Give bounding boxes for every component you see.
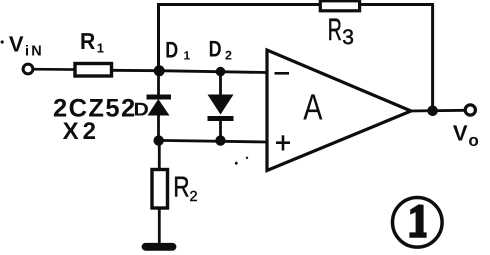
label A (op-amp gain block) xyxy=(303,87,323,128)
op-amp U1 xyxy=(267,50,411,171)
junction D2 top xyxy=(216,67,226,77)
svg-text:2: 2 xyxy=(190,189,198,205)
resistor R3 xyxy=(320,1,359,11)
speck right of R2 xyxy=(246,157,248,159)
svg-text:R: R xyxy=(328,12,342,47)
wire bottom rail to op-amp non-inverting input xyxy=(159,140,268,142)
wire node A to top rail xyxy=(157,5,160,72)
op-amp inverting input marker xyxy=(275,72,290,75)
svg-text:D: D xyxy=(209,36,222,62)
svg-text:R: R xyxy=(80,28,96,54)
svg-text:V: V xyxy=(9,32,24,57)
op-amp non-inverting input marker xyxy=(276,141,290,144)
svg-text:iN: iN xyxy=(25,43,44,59)
label R2 xyxy=(173,171,189,203)
wire Vin to R1 xyxy=(33,68,76,71)
svg-text:1: 1 xyxy=(97,40,104,55)
svg-text:D: D xyxy=(165,36,178,62)
label R3 xyxy=(328,12,342,47)
wire node A to op-amp inverting input xyxy=(158,71,267,73)
terminal Vin xyxy=(23,64,33,74)
terminal Vo xyxy=(465,105,475,115)
svg-text:2: 2 xyxy=(225,48,232,62)
svg-text:3: 3 xyxy=(342,26,354,49)
svg-text:V: V xyxy=(453,120,468,145)
svg-text:X2: X2 xyxy=(63,118,100,145)
resistor R1 xyxy=(75,64,112,77)
wire top rail xyxy=(157,3,434,6)
wire op-amp output to terminal Vo xyxy=(408,109,465,112)
label D1 xyxy=(165,36,178,62)
node A junction D1 top xyxy=(154,65,165,76)
junction D2 bottom xyxy=(215,135,225,145)
speck near Vin label xyxy=(1,40,4,43)
svg-text:R: R xyxy=(173,171,189,203)
label R1 xyxy=(80,28,96,54)
speck below D2 bottom wire xyxy=(235,162,238,165)
label D2 xyxy=(209,36,222,62)
ground xyxy=(146,243,173,251)
wire top rail to output node xyxy=(431,5,434,112)
figure number 1 xyxy=(393,198,443,248)
diode D2 xyxy=(208,72,234,141)
svg-text:1: 1 xyxy=(184,48,191,62)
resistor R2 xyxy=(152,141,168,244)
svg-text:A: A xyxy=(303,87,323,128)
junction D1 bottom xyxy=(154,135,164,145)
svg-text:D: D xyxy=(134,99,149,120)
node output junction xyxy=(427,106,438,117)
wire R1 to node A xyxy=(112,69,160,72)
diode D1 xyxy=(147,71,172,141)
svg-text:o: o xyxy=(468,131,478,150)
